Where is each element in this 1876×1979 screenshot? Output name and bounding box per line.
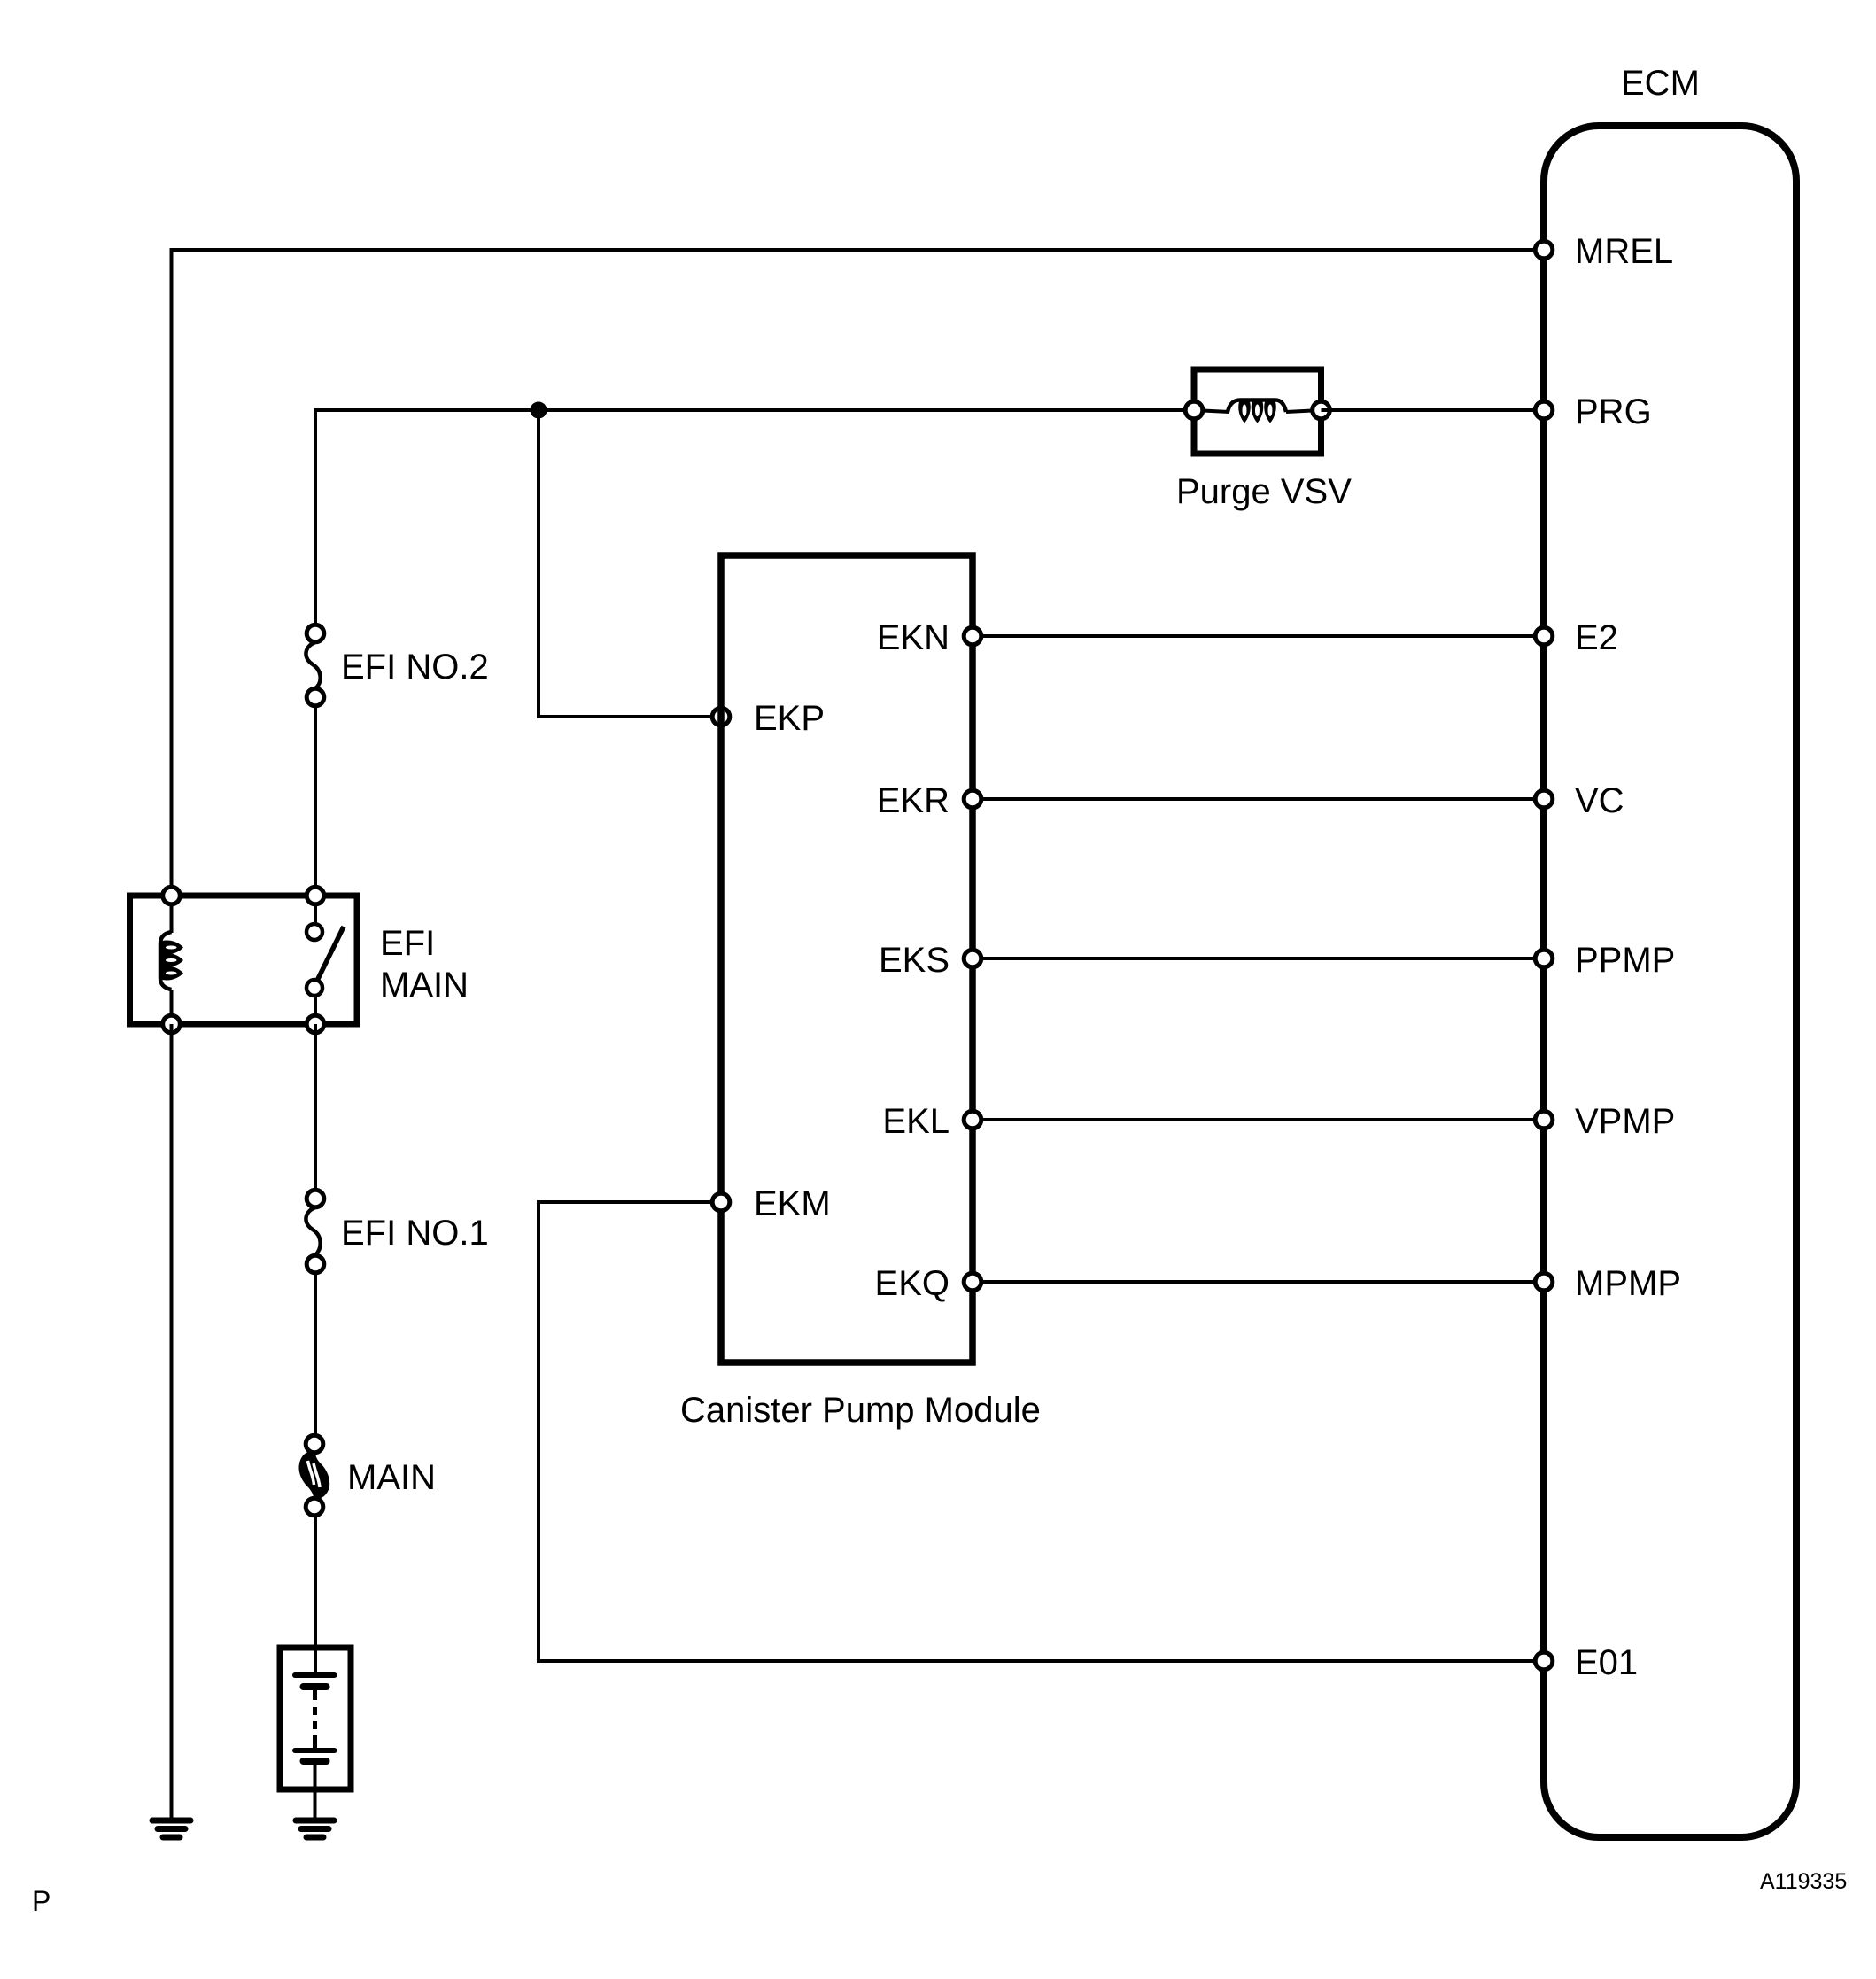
pin MPMP: [1535, 1264, 1681, 1303]
wire MAIN link to battery: [314, 1516, 317, 1675]
wire left ground: [170, 1024, 174, 1818]
pin EKL: [882, 1102, 981, 1141]
svg-text:EKS: EKS: [879, 941, 950, 980]
svg-text:Canister Pump Module: Canister Pump Module: [680, 1391, 1041, 1430]
svg-text:PPMP: PPMP: [1575, 941, 1675, 980]
pin PPMP: [1535, 941, 1675, 980]
svg-text:EFI NO.1: EFI NO.1: [341, 1214, 489, 1253]
svg-text:EKP: EKP: [754, 699, 825, 738]
wire VPMP: [973, 1118, 1544, 1121]
ground battery: [296, 1820, 334, 1837]
battery: [280, 1648, 351, 1818]
wire EKP net: [539, 410, 721, 717]
pin EKQ: [875, 1264, 981, 1303]
svg-text:EKR: EKR: [877, 781, 950, 820]
wire PRG right segment: [1322, 408, 1545, 412]
svg-text:A119335: A119335: [1760, 1869, 1847, 1894]
svg-text:MAIN: MAIN: [380, 966, 469, 1005]
wire EKM to E01: [539, 1202, 1544, 1661]
pin PRG: [1535, 392, 1651, 431]
pin VPMP: [1535, 1102, 1675, 1141]
svg-text:MPMP: MPMP: [1575, 1264, 1681, 1303]
wire PRG left segment: [315, 410, 1194, 896]
wire E2: [973, 634, 1544, 638]
pin EKS: [879, 941, 981, 980]
fuse EFI NO.2: [306, 625, 488, 706]
ground left: [152, 1820, 190, 1837]
wire MPMP: [973, 1280, 1544, 1284]
svg-text:PRG: PRG: [1575, 392, 1652, 431]
wire PPMP: [973, 957, 1544, 960]
pin EKN: [877, 618, 981, 657]
relay EFI MAIN: [130, 887, 469, 1033]
svg-text:VPMP: VPMP: [1575, 1102, 1675, 1141]
svg-text:VC: VC: [1575, 781, 1624, 820]
svg-text:P: P: [32, 1885, 50, 1917]
pin MREL: [1535, 232, 1673, 271]
svg-text:EKN: EKN: [877, 618, 950, 657]
ECM module box: [1544, 126, 1796, 1837]
svg-text:MREL: MREL: [1575, 232, 1673, 271]
svg-text:E01: E01: [1575, 1643, 1638, 1682]
fuse EFI NO.1: [306, 1190, 488, 1273]
node junction PRG: [531, 402, 547, 419]
svg-text:EFI: EFI: [380, 924, 435, 963]
fusible link MAIN: [298, 1435, 436, 1516]
svg-text:E2: E2: [1575, 618, 1618, 657]
canister pump module box: [721, 555, 973, 1362]
svg-text:EKL: EKL: [882, 1102, 950, 1141]
svg-text:ECM: ECM: [1621, 64, 1700, 103]
pin VC: [1535, 781, 1624, 820]
svg-text:MAIN: MAIN: [347, 1458, 436, 1497]
wire fuse1 to MAIN link: [314, 1273, 317, 1435]
wire VC: [973, 797, 1544, 801]
pin EKR: [877, 781, 981, 820]
svg-text:EKQ: EKQ: [875, 1264, 950, 1303]
svg-text:EFI NO.2: EFI NO.2: [341, 648, 489, 687]
wire MREL: [172, 250, 1545, 896]
purge VSV V1: [1185, 369, 1329, 454]
svg-text:Purge VSV: Purge VSV: [1176, 472, 1352, 511]
wire battery branch: [314, 1024, 317, 1190]
svg-text:EKM: EKM: [754, 1184, 831, 1223]
pin E2: [1535, 618, 1618, 657]
pin E01: [1535, 1643, 1638, 1682]
pin EKP: [712, 699, 825, 738]
pin EKM: [712, 1184, 830, 1223]
